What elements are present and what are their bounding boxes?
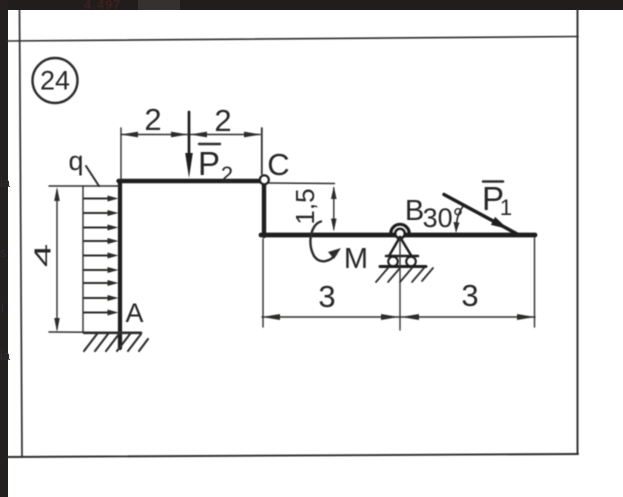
svg-text:2: 2	[214, 103, 231, 138]
svg-text:2: 2	[221, 162, 233, 187]
svg-text:C: C	[267, 147, 289, 182]
faint page number 4.497 in top band	[84, 0, 164, 9]
rollers	[388, 257, 398, 267]
frame right line	[577, 9, 579, 454]
svg-text:q: q	[68, 146, 83, 176]
frame top line	[7, 37, 578, 42]
svg-text:4: 4	[30, 244, 56, 267]
angle arc with arrow	[454, 205, 465, 233]
scan left black band	[0, 0, 8, 497]
hinge circle C	[260, 175, 269, 184]
svg-text:1,5: 1,5	[290, 188, 320, 224]
svg-text:3: 3	[318, 279, 335, 314]
roller support B	[376, 224, 433, 330]
top dimension line 2+2	[121, 128, 262, 179]
bottom dimension line 3+3	[262, 238, 535, 327]
distributed load q left edge	[82, 186, 84, 332]
svg-text:2: 2	[144, 102, 161, 137]
label P2 with overbar	[198, 144, 233, 187]
faint letters on left band	[0, 175, 10, 190]
dimension 4 line	[30, 187, 60, 332]
beam bottom (from C-leg to right end)	[261, 233, 535, 238]
distributed load arrows	[84, 196, 119, 316]
svg-text:M: M	[344, 243, 368, 275]
fixed support ground line at A	[49, 331, 141, 334]
support hatching	[376, 268, 433, 282]
force P1 arrow	[444, 195, 519, 236]
frame left line	[20, 10, 23, 457]
triangle legs	[389, 237, 400, 256]
hatching at A	[84, 334, 148, 351]
pin circle	[395, 229, 405, 239]
extension line left	[262, 239, 264, 327]
scan top black band	[0, 0, 623, 10]
extension line left	[120, 128, 122, 179]
task number circle 24	[33, 58, 78, 103]
svg-text:3: 3	[461, 278, 478, 313]
label q with leader	[68, 146, 99, 186]
distributed load top edge / extension line	[49, 185, 119, 187]
label P1 with overbar	[482, 180, 512, 220]
moment M curved arrow	[310, 222, 341, 262]
svg-text:P: P	[198, 145, 220, 182]
force P2 arrow	[185, 112, 193, 178]
member C down	[262, 180, 266, 236]
outer pin cap	[391, 224, 409, 233]
svg-text:B: B	[405, 195, 424, 227]
extension line right	[534, 238, 536, 327]
support centerline	[399, 238, 401, 330]
svg-text:24: 24	[40, 66, 70, 96]
svg-text:A: A	[125, 298, 143, 328]
extension line right	[261, 128, 263, 174]
beam top (from column to C)	[119, 179, 265, 183]
top band lighter patch	[138, 0, 180, 10]
dimension 1,5	[269, 183, 337, 232]
frame bottom line	[8, 454, 578, 457]
triangle base	[386, 255, 418, 258]
column A (vertical member)	[118, 181, 122, 348]
support ground line	[380, 265, 426, 268]
svg-text:1: 1	[500, 195, 512, 220]
